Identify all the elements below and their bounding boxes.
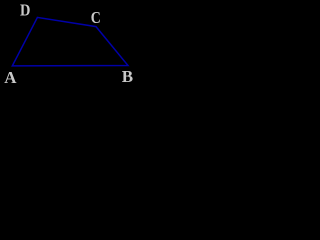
svg-text:D: D: [20, 1, 30, 20]
quadrilateral ABCD: [12, 17, 128, 66]
svg-text:B: B: [122, 67, 133, 86]
background: [0, 0, 143, 92]
svg-text:A: A: [4, 68, 17, 87]
svg-text:C: C: [91, 8, 101, 27]
